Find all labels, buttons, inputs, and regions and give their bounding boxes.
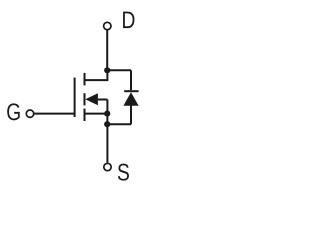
MOSFET schematic: N-channel with body diode, terminals G, D, S [0,0,167,190]
diode D1 triangle [123,92,138,106]
wire gate lead [34,113,75,115]
wire mosfet drain lead [86,70,108,80]
wire diode bottom to source node [107,123,131,125]
wire drain vertical [106,30,108,70]
node diode bottom dot [104,121,110,127]
wire source vertical [106,100,108,163]
label D [123,12,134,29]
diode D1 bottom lead [130,106,132,125]
transistor Q1 channel dash bottom [84,109,86,121]
node source contact dot [104,111,110,117]
transistor Q1 body arrow [85,93,98,105]
transistor Q1 channel dash middle [84,93,86,105]
wire drain to diode top [107,69,131,71]
wire source contact lead [85,113,108,115]
wire arrow lead [98,99,108,101]
label S [118,164,129,181]
transistor Q1 channel dash top [84,73,86,86]
terminal S circle [104,163,111,170]
diode D1 cathode bar [124,90,138,92]
terminal D circle [104,22,111,29]
label G [7,103,20,120]
terminal G circle [26,110,33,117]
diode D1 top lead [130,70,132,90]
transistor Q1 gate electrode [74,78,76,117]
node drain junction dot [104,67,110,73]
